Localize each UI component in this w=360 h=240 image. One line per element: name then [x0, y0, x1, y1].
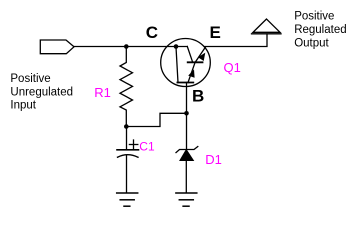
transistor Q1 (Darlington pair) circle — [161, 39, 211, 87]
wire: input rail to Q1 collector corner — [74, 46, 187, 48]
svg-text:Q1: Q1 — [224, 60, 241, 75]
node: collector junction dot — [174, 44, 179, 49]
transistor Q1: output emitter with arrow — [195, 47, 205, 62]
svg-text:R1: R1 — [94, 85, 111, 100]
transistor Q1: output base bar — [188, 61, 203, 63]
node: base/D1 junction dot — [184, 111, 189, 116]
svg-text:Regulated: Regulated — [294, 24, 346, 36]
capacitor C1 top lead — [126, 127, 128, 150]
svg-text:Unregulated: Unregulated — [10, 86, 73, 98]
zener diode D1 bottom lead — [185, 160, 187, 192]
svg-text:E: E — [210, 23, 221, 42]
wire: base lead B down to zener — [186, 83, 188, 150]
svg-text:C1: C1 — [139, 140, 155, 154]
transistor Q1: output collector diagonal — [187, 47, 192, 63]
capacitor C1 plus sign — [129, 144, 137, 146]
node: rail / R1 top junction — [124, 44, 129, 49]
transistor Q1: driver emitter with arrow — [188, 63, 195, 83]
wire: C1 node step to base node — [126, 113, 186, 126]
svg-text:Positive: Positive — [294, 10, 334, 22]
svg-text:C: C — [146, 23, 158, 42]
node: R1/C1 junction dot — [124, 124, 129, 129]
svg-text:Output: Output — [294, 38, 329, 50]
transistor Q1: driver base bar — [177, 82, 193, 84]
svg-text:D1: D1 — [205, 152, 222, 167]
transistor Q1: driver collector line — [176, 47, 178, 83]
zener diode D1 anode triangle — [180, 150, 193, 160]
capacitor C1 plates — [117, 149, 139, 151]
ground (below C1) — [117, 192, 138, 194]
svg-text:Input: Input — [10, 100, 36, 112]
wire: emitter to output corner — [205, 34, 267, 47]
zener diode D1 cathode bar with bent ends — [176, 147, 198, 153]
svg-text:B: B — [192, 87, 204, 106]
svg-text:Positive: Positive — [10, 73, 50, 85]
input terminal (Positive Unregulated Input tag) — [40, 40, 74, 54]
capacitor C1 bottom lead — [126, 155, 128, 192]
ground (below D1) — [176, 192, 197, 194]
resistor R1 — [120, 47, 133, 127]
output terminal arrow (Positive Regulated Output) — [253, 19, 280, 32]
